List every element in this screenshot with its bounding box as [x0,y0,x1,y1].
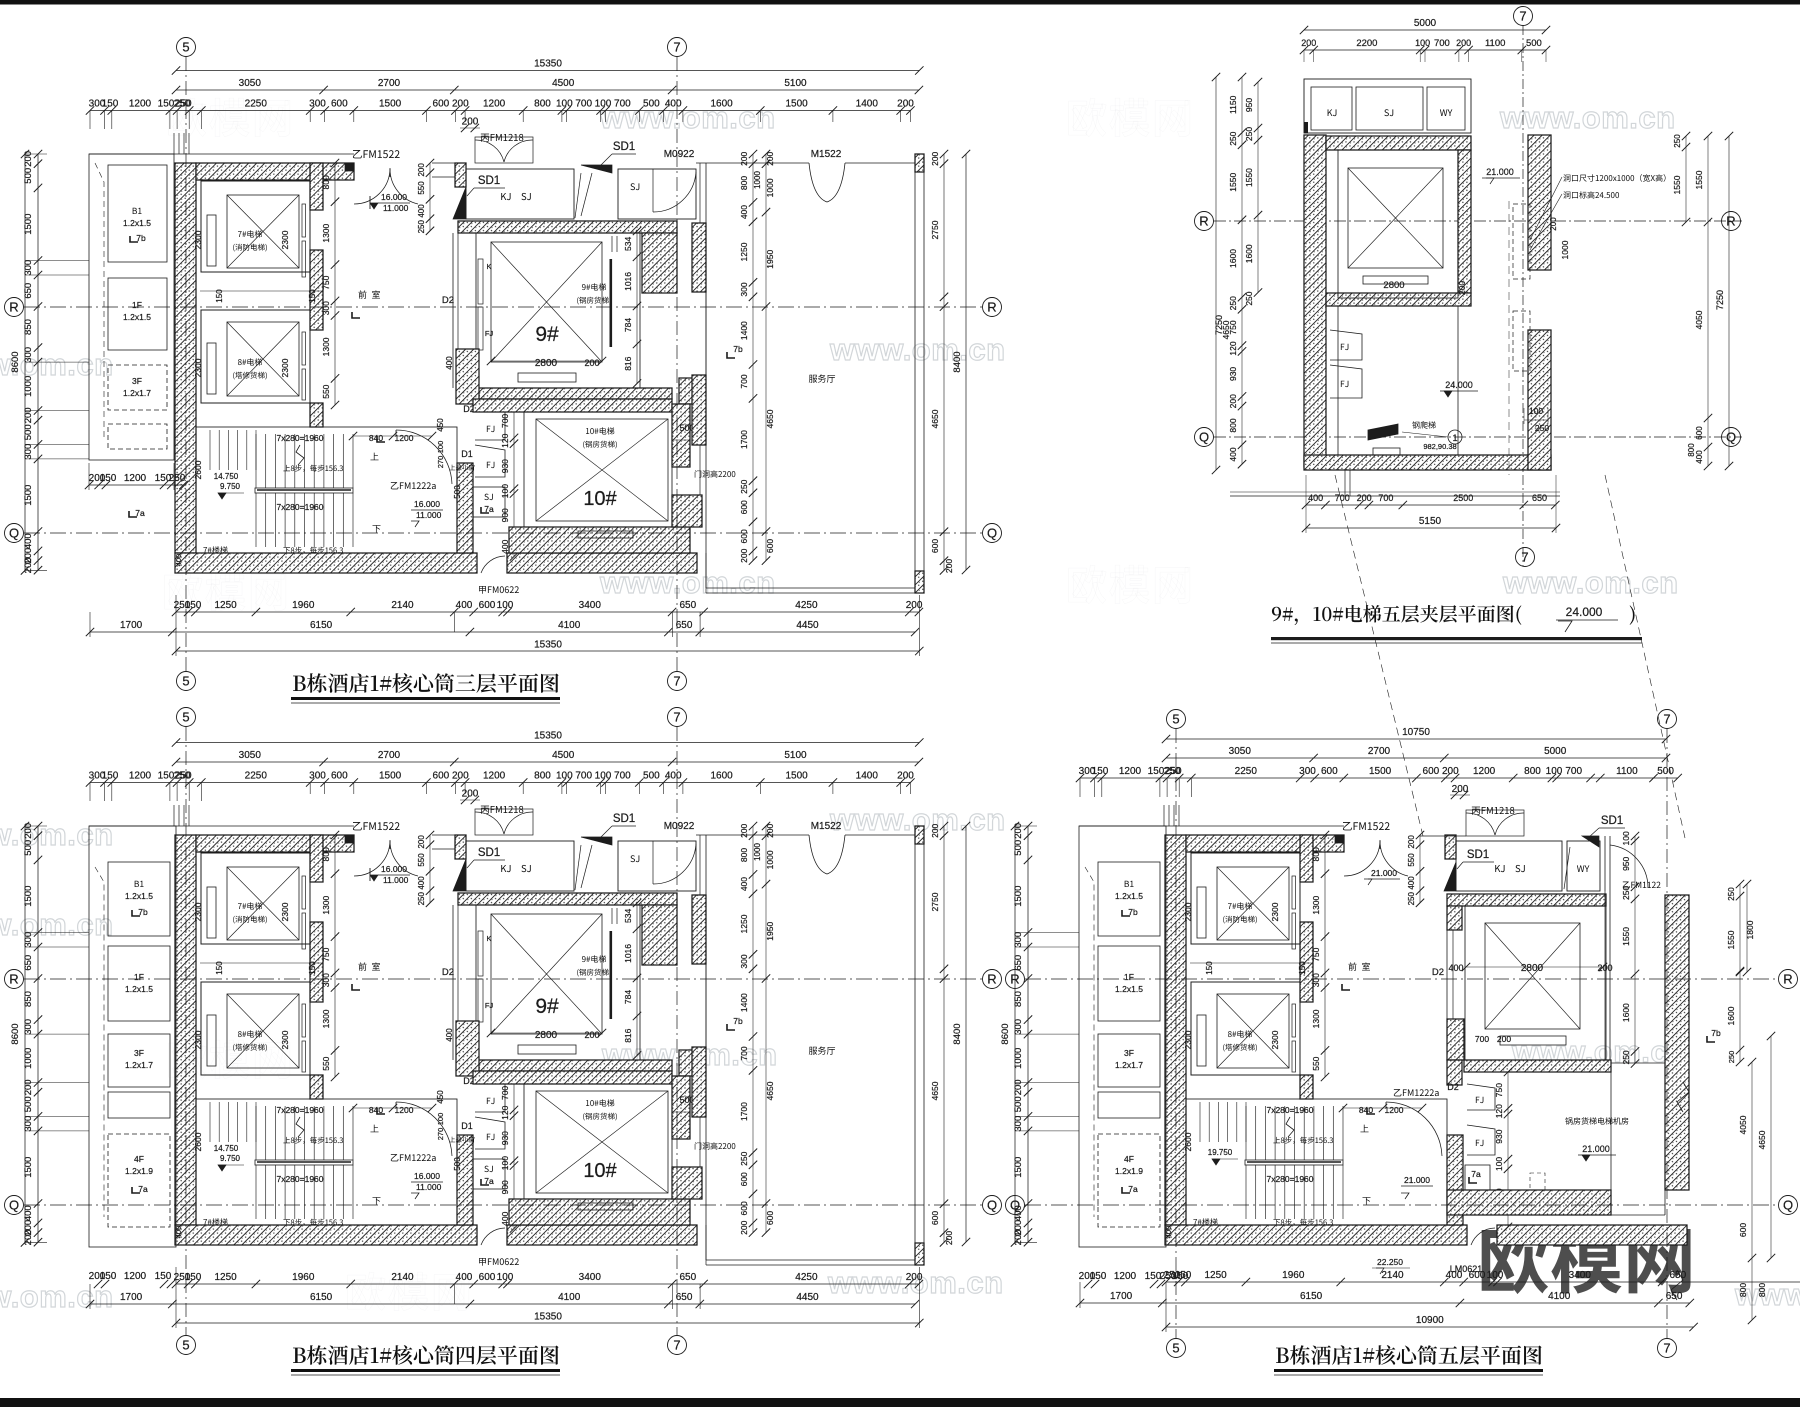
wall 10# right (hatched) [672,404,690,467]
axis bubble Q left [1006,1196,1025,1215]
svg-text:1500: 1500 [785,99,808,110]
svg-text:500: 500 [1526,38,1542,49]
svg-text:7x280=1960: 7x280=1960 [276,433,323,443]
label door height [695,470,736,477]
svg-text:2700: 2700 [378,78,401,89]
svg-text:150: 150 [102,99,119,110]
dim 8400 [965,154,967,570]
axis bubble R left [1195,212,1214,231]
machine room right wall (hatched) [1665,895,1689,1190]
svg-text:400: 400 [1695,450,1704,464]
corner elbows [1342,984,1350,990]
svg-text:930: 930 [1228,367,1238,381]
svg-text:1200: 1200 [129,99,152,110]
stair treads main [1245,1106,1247,1160]
elevator 7# room [1191,853,1300,944]
wall top (hatched) [196,163,354,180]
svg-text:200: 200 [462,117,479,128]
svg-text:D2: D2 [1447,1082,1459,1092]
svg-text:600: 600 [739,529,749,543]
svg-text:650: 650 [676,620,693,631]
axis bubble 5 bottom [177,1336,196,1355]
service hall right wall [914,163,916,593]
svg-text:5: 5 [1172,1341,1179,1356]
svg-text:900: 900 [500,508,510,522]
stair treads main [255,434,257,488]
svg-text:SD1: SD1 [613,141,635,153]
svg-text:200: 200 [1013,823,1024,839]
svg-text:800: 800 [534,99,551,110]
label elevator 8# [1228,1030,1252,1037]
bottom dim row 1 [176,611,919,613]
wall 9# top (hatched) [458,221,677,233]
vestibule right wall upper (hatched) [1445,835,1456,859]
lobby wall left (D) [1446,930,1448,1019]
svg-text:1800: 1800 [1745,920,1755,939]
svg-text:550: 550 [417,181,426,195]
stair room [196,427,457,553]
door FM1522 double arcs [1344,841,1380,876]
svg-text:4050: 4050 [1694,310,1704,329]
label FM1522 [1343,822,1390,830]
door arc SJ [653,172,696,212]
svg-text:950: 950 [1244,98,1254,112]
svg-text:1600: 1600 [1244,244,1254,263]
ancillary room column [89,826,176,1247]
svg-text:1500: 1500 [379,99,402,110]
axis bubble 5 top [177,38,196,57]
room dashed empty [108,424,167,449]
svg-text:16.000: 16.000 [414,499,440,509]
svg-text:www.om.cn: www.om.cn [1502,565,1679,600]
wall pier below 8# (hatched) [310,403,323,427]
svg-text:2800: 2800 [535,358,558,369]
axis R line [1025,978,1778,980]
wall pier right bottom (hatched) [679,378,702,404]
svg-text:250: 250 [1164,766,1181,777]
wall left (hatched) [1304,135,1326,467]
svg-text:250: 250 [1727,887,1736,901]
svg-text:2800: 2800 [1521,963,1544,974]
svg-text:650: 650 [1013,955,1024,971]
door FM1218 [475,137,533,163]
svg-text:1.2x1.5: 1.2x1.5 [123,312,151,322]
svg-text:1300: 1300 [321,223,331,242]
small stub below [1344,470,1346,496]
svg-text:7: 7 [1521,550,1528,565]
svg-text:400: 400 [1164,1226,1173,1239]
wall 10# bottom (hatched) [509,527,690,553]
svg-text:5: 5 [182,40,189,55]
shaft inner room [1338,150,1458,298]
service hall outline [699,163,701,223]
svg-text:250: 250 [1244,291,1254,305]
label FM1522 [353,150,400,158]
svg-text:24.000: 24.000 [1445,380,1473,390]
svg-text:100: 100 [1494,1157,1504,1171]
svg-text:19.750: 19.750 [1208,1148,1233,1157]
label service hall [809,374,835,382]
axis bubble 5 top [177,708,196,727]
svg-text:SD1: SD1 [478,175,500,187]
svg-text:14.750: 14.750 [214,472,239,481]
room B1 [108,165,167,262]
axis bubble 5 bottom [177,672,196,691]
svg-text:2500: 2500 [1453,493,1473,503]
svg-text:1000: 1000 [1560,240,1570,259]
grid stub marks [173,133,175,154]
svg-text:R: R [9,300,18,315]
elevator 7# shaft X [227,195,299,268]
svg-text:200: 200 [944,559,954,573]
svg-text:2200: 2200 [1356,38,1377,49]
svg-text:750: 750 [1494,1083,1504,1097]
wall 9# top (D, hatched) [1447,894,1606,906]
right dim chains (D) [1634,836,1636,1064]
svg-text:1000: 1000 [753,171,762,189]
title plan A [293,673,559,693]
svg-text:2800: 2800 [1383,280,1404,291]
svg-text:4250: 4250 [795,600,818,611]
svg-text:1.2x1.7: 1.2x1.7 [125,1060,153,1070]
svg-text:200: 200 [930,151,940,165]
svg-text:200: 200 [1457,281,1467,295]
svg-text:www.om.cn: www.om.cn [0,907,114,942]
bottom area walls (D) [1447,1190,1611,1215]
svg-text:200: 200 [417,163,426,177]
svg-text:270: 270 [436,456,445,469]
dims right of 9# [636,231,638,384]
svg-text:100: 100 [436,441,445,454]
svg-text:250: 250 [174,99,191,110]
svg-text:600: 600 [1321,766,1338,777]
svg-text:1300: 1300 [1311,1009,1321,1028]
svg-text:300: 300 [309,99,326,110]
bottom border bar [0,1398,1800,1407]
svg-text:Q: Q [1783,1198,1793,1213]
axis bubble 7 bottom [668,672,687,691]
smoke door SD1 left (filled) [453,187,466,219]
room 1F [108,278,167,350]
svg-text:2250: 2250 [1235,766,1258,777]
vestibule right wall upper (hatched) [455,163,466,187]
axis Q line [1214,436,1742,438]
svg-text:500: 500 [453,485,462,499]
svg-text:450: 450 [436,418,445,432]
svg-text:200: 200 [1442,766,1459,777]
svg-text:816: 816 [623,356,633,370]
svg-text:10#: 10# [583,488,617,510]
svg-text:800: 800 [1738,1283,1748,1297]
small box [1098,1092,1160,1118]
room WY (D) [1567,841,1600,891]
svg-text:700: 700 [500,414,510,428]
svg-text:1.2x1.9: 1.2x1.9 [125,1166,153,1176]
room 1F [108,946,170,1021]
svg-text:200: 200 [452,99,469,110]
svg-text:1700: 1700 [739,430,749,449]
svg-text:1.2x1.5: 1.2x1.5 [1115,891,1143,901]
svg-text:8600: 8600 [10,351,21,372]
FJ boxes [1330,330,1362,360]
watermark big dark [1482,1225,1691,1294]
dimension row small top [90,110,910,112]
door FM1218 (D) [1466,810,1524,836]
svg-text:300: 300 [321,301,331,315]
ancillary room column [89,154,174,460]
svg-text:550: 550 [1311,1056,1321,1070]
wall pier mid (hatched) [1300,922,1313,1002]
dimension row 15350 top [176,70,919,72]
service hall left wall piers [692,223,706,292]
svg-text:1550: 1550 [1694,170,1704,189]
svg-text:2140: 2140 [1381,1270,1404,1281]
svg-text:250: 250 [1407,891,1416,905]
svg-text:4650: 4650 [1757,1130,1767,1149]
svg-text:100: 100 [1546,766,1563,777]
10# sill [578,531,633,538]
svg-text:1200: 1200 [1114,1271,1137,1282]
svg-text:840: 840 [369,433,383,443]
svg-text:250: 250 [1621,886,1631,900]
wall left main (hatched) [1165,835,1186,1225]
elevator 8# shaft X [227,322,299,396]
svg-text:850: 850 [1013,991,1024,1007]
axis bubble Q left [5,524,24,543]
inner dim chain service hall [752,154,754,561]
dashed guide [95,867,104,1217]
svg-text:21.000: 21.000 [1404,1175,1430,1185]
top border bar [0,0,1800,5]
svg-text:1400: 1400 [739,321,749,340]
axis bubble Q right [983,524,1002,543]
svg-text:1.2x1.9: 1.2x1.9 [1115,1166,1143,1176]
stair treads upper flight [209,430,211,470]
svg-text:800: 800 [1524,766,1541,777]
svg-text:600: 600 [1423,766,1440,777]
svg-text:400: 400 [445,356,454,370]
svg-text:15350: 15350 [534,640,562,651]
svg-text:15350: 15350 [534,59,562,70]
svg-text:1950: 1950 [765,250,775,269]
watermark row5 [169,1040,290,1079]
svg-text:1550: 1550 [1621,927,1631,946]
axis bubble 7 top [668,708,687,727]
stair treads upper flight [1199,1102,1201,1142]
svg-text:24.000: 24.000 [1566,605,1603,619]
svg-text:2750: 2750 [930,220,940,239]
svg-text:800: 800 [1757,1283,1767,1297]
wall left pier lower (D, hatched) [1447,1019,1464,1060]
svg-text:250: 250 [1228,296,1238,310]
elevator 8# room [201,310,310,403]
lower room [1337,306,1339,455]
svg-text:7: 7 [673,40,680,55]
svg-text:Q: Q [987,1198,997,1213]
svg-text:400: 400 [1228,447,1238,461]
svg-text:1300: 1300 [1311,895,1321,914]
svg-text:M0922: M0922 [664,149,695,160]
axis bubble R right [1779,970,1798,989]
axis Q line [1025,1204,1778,1206]
wall bottom (hatched) [1165,1225,1467,1245]
svg-text:7x280=1960: 7x280=1960 [276,502,323,512]
svg-text:2300: 2300 [193,230,203,249]
svg-text:5: 5 [182,710,189,725]
9# inner room (D) [1465,906,1606,1060]
SD1 right (D) [1582,836,1599,847]
svg-text:650: 650 [679,600,696,611]
svg-text:700: 700 [1475,1034,1489,1044]
label elevator 8# [238,358,262,365]
dimension row 3050/2700/4500/5100 [176,89,919,91]
svg-text:16.000: 16.000 [381,192,407,202]
svg-text:7: 7 [1519,9,1526,24]
svg-text:200: 200 [1228,394,1238,408]
svg-text:2600: 2600 [193,460,203,479]
svg-text:600: 600 [765,539,775,553]
elevator 8# rails [1197,1015,1206,1066]
watermark row1 [169,98,290,137]
svg-text:850: 850 [23,319,34,335]
svg-text:150: 150 [100,473,117,484]
axis Q line [24,532,982,534]
svg-text:2600: 2600 [1183,1132,1193,1151]
stair arrow [1286,1117,1294,1137]
door FM1222a arc [1386,1102,1442,1156]
left col dims [89,484,183,486]
room 4F dashed [108,1134,170,1227]
svg-text:800: 800 [321,175,331,189]
svg-text:4650: 4650 [1221,320,1231,339]
elevator 10# shaft X [536,419,668,521]
svg-text:250: 250 [739,479,749,493]
machine room label [1565,1117,1628,1124]
svg-text:5: 5 [182,1338,189,1353]
D top dims [1166,738,1666,740]
wall bottom (hatched) [175,553,477,573]
dim 8600 overall [24,154,26,570]
wall below 9# (hatched) [476,388,672,399]
svg-text:Q: Q [1199,430,1209,445]
elevator 7# rails [207,215,216,266]
svg-text:750: 750 [321,275,331,289]
axis bubble 7 bottom [1516,548,1535,567]
svg-text:1500: 1500 [1369,766,1392,777]
svg-text:930: 930 [1494,1129,1504,1143]
axis bubble 7 bottom [1658,1339,1677,1358]
axis R line [1214,220,1742,222]
label elevator 7# [238,230,262,237]
svg-text:700: 700 [739,374,749,388]
svg-text:150: 150 [185,600,202,611]
label FM1222a (D) [1394,1089,1439,1096]
svg-text:1016: 1016 [623,272,633,291]
svg-text:250: 250 [169,473,186,484]
svg-text:7: 7 [673,710,680,725]
shaft sill [1363,276,1428,284]
svg-text:1.2x1.7: 1.2x1.7 [1115,1060,1143,1070]
svg-text:22.250: 22.250 [1377,1257,1403,1267]
svg-text:600: 600 [479,600,496,611]
door FM1522 double arcs [354,169,390,204]
svg-text:650: 650 [1666,1291,1683,1302]
svg-text:1150: 1150 [1228,95,1238,114]
watermark row3 [165,572,286,611]
svg-text:3050: 3050 [239,78,262,89]
stair handrail [255,488,353,493]
svg-text:21.000: 21.000 [1486,167,1514,177]
svg-text:1550: 1550 [1672,175,1682,194]
smoke door SD1 mid [581,165,612,173]
break symbols [1671,1270,1683,1300]
svg-text:21.000: 21.000 [1371,868,1397,878]
svg-text:500: 500 [643,99,660,110]
svg-text:5000: 5000 [1414,18,1437,29]
room KJ/SJ (D) [1456,841,1562,891]
title B underline [1271,637,1642,640]
svg-text:www.om.cn: www.om.cn [1499,100,1676,135]
svg-text:R: R [1199,214,1208,229]
svg-text:7b: 7b [1711,1028,1721,1038]
axis Q line [24,1204,982,1206]
svg-text:10900: 10900 [1416,1315,1444,1326]
machine room outline [1611,1062,1665,1064]
vestibule dim chain (mid) [1324,835,1326,1077]
wall below shaft (hatched) [1326,293,1471,306]
elevator 9# inner room [476,233,640,388]
dim 8600 overall [1014,826,1016,1242]
svg-text:1F: 1F [132,300,142,310]
callout dashed leaders [1335,475,1423,836]
wall right of stair (hatched) [1447,1135,1463,1225]
svg-text:1700: 1700 [120,620,143,631]
svg-text:Q: Q [1010,1198,1020,1213]
svg-text:4100: 4100 [1548,1291,1571,1302]
axis bubble 5 top [1167,710,1186,729]
axis bubble 7 top [1658,710,1677,729]
axis bubble 7 top [668,38,687,57]
grid stub marks [1163,805,1165,826]
axis 7 line [1666,729,1668,1338]
room KJ/SJ [466,169,574,219]
svg-text:400: 400 [456,600,473,611]
9# sill [518,373,576,382]
elevator 8# shaft X [1217,994,1289,1068]
axis 7 line [676,727,678,1335]
label elevator 7# [1228,902,1252,909]
dims col (D) [1507,1072,1509,1227]
bottom right room lines [1611,1214,1665,1216]
wall bottom (hatched) [1304,455,1551,470]
svg-text:1200: 1200 [1119,766,1142,777]
wall 10# top (hatched) [473,399,672,412]
svg-text:2300: 2300 [1183,902,1193,921]
axis 5 line [185,727,187,1335]
svg-text:4F: 4F [134,1154,144,1164]
svg-text:7x280=1960: 7x280=1960 [1266,1174,1313,1184]
svg-text:3400: 3400 [579,600,602,611]
wall left main (hatched) [175,163,196,553]
9# lobby walls [452,233,454,388]
svg-text:250: 250 [1673,134,1682,148]
machine room KJ/SJ/WY band [1304,79,1471,133]
elevator 8# rails [207,343,216,394]
elevator 9# shaft X [491,242,602,362]
svg-text:600: 600 [739,500,749,514]
svg-text:300: 300 [1311,973,1321,987]
svg-text:200: 200 [897,99,914,110]
